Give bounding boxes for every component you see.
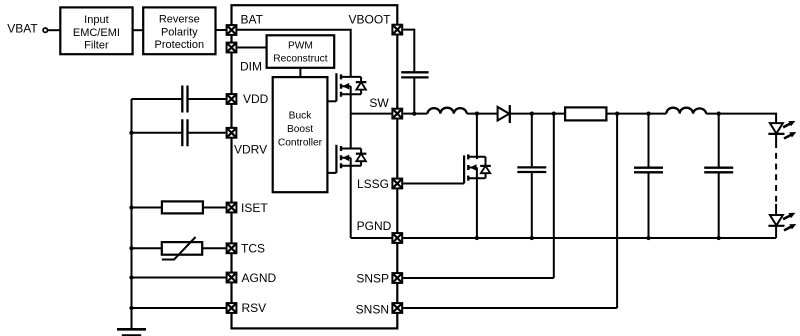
pin VDD <box>227 94 237 104</box>
wire gate Q2 <box>327 172 336 174</box>
wire output cap B bottom <box>718 173 720 238</box>
svg-text:Reconstruct: Reconstruct <box>273 54 328 65</box>
wire diode to sense resistor <box>510 113 565 115</box>
svg-text:Reverse: Reverse <box>159 14 200 26</box>
ground <box>117 329 146 335</box>
wire inductor to diode <box>467 113 498 115</box>
svg-text:AGND: AGND <box>242 271 277 285</box>
wire PGND return line <box>403 237 776 239</box>
wire Q2 source to PGND pin <box>351 158 392 238</box>
svg-text:LSSG: LSSG <box>357 177 389 191</box>
wire ISET <box>132 207 226 209</box>
svg-text:Boost: Boost <box>287 124 313 135</box>
block reverse polarity protection <box>143 7 215 54</box>
capacitor C1 (VDD) <box>182 86 187 113</box>
junction Q3 drain <box>475 111 479 115</box>
wire output cap B top <box>718 114 720 167</box>
svg-text:VBOOT: VBOOT <box>348 12 391 26</box>
junction C5 top <box>646 111 650 115</box>
svg-text:Input: Input <box>84 14 108 26</box>
wire SNSN <box>403 114 617 308</box>
junction bus-RSV <box>129 306 133 310</box>
node VBAT <box>7 21 47 35</box>
block buck boost controller <box>273 77 328 192</box>
junction boot cap / SW <box>412 111 416 115</box>
thermistor RT1 (TCS NTC) <box>162 237 202 260</box>
wire LSSG to Q3 gate <box>403 183 464 185</box>
wire TCS <box>132 247 226 249</box>
wire PWM to controller <box>299 68 301 77</box>
svg-text:BAT: BAT <box>241 12 264 26</box>
wire LED link dashed <box>775 153 777 202</box>
wire DIM to PWM block <box>237 47 266 49</box>
junction C6 bottom <box>717 236 721 240</box>
svg-text:RSV: RSV <box>242 301 267 315</box>
diode D1 <box>498 105 510 123</box>
svg-text:Polarity: Polarity <box>161 26 198 38</box>
inductor L2 <box>666 108 706 114</box>
wire gate Q1 <box>327 100 336 102</box>
junction C6 top <box>717 111 721 115</box>
pin TCS <box>227 243 237 253</box>
wire LED D3 cathode to return <box>775 226 777 238</box>
wire output cap A top <box>648 114 650 167</box>
svg-text:Controller: Controller <box>278 137 323 148</box>
IC U1 boundary <box>232 5 398 328</box>
pin RSV <box>227 303 237 313</box>
wire sense resistor to inductor L2 <box>606 113 666 115</box>
capacitor C5 <box>634 168 663 173</box>
wire Q3 source vertical <box>476 168 478 179</box>
svg-text:PGND: PGND <box>357 219 392 233</box>
wire bootstrap cap to SW <box>413 79 415 114</box>
transistor Q2 (internal low-side NMOS) <box>336 145 366 173</box>
block input EMC/EMI filter <box>60 7 132 54</box>
wire L2 to LED string <box>706 114 776 124</box>
wire BAT internal to Q1 drain <box>237 30 350 77</box>
pin SNSN <box>392 303 402 313</box>
LED D3 <box>768 213 796 231</box>
wire VBAT to filter <box>48 29 61 31</box>
wire VDRV line <box>132 132 226 134</box>
wire VDD line <box>132 98 226 100</box>
junction C4 bottom <box>530 236 534 240</box>
svg-text:VDD: VDD <box>243 92 269 106</box>
block PWM reconstruct <box>267 35 335 68</box>
junction C5 bottom <box>646 236 650 240</box>
svg-text:DIM: DIM <box>240 60 262 74</box>
svg-text:VBAT: VBAT <box>7 21 38 35</box>
wire Q3 drain <box>476 114 478 160</box>
capacitor C4 <box>517 167 546 172</box>
junction bus-AGND <box>129 275 133 279</box>
transistor Q3 (external low-side NMOS) <box>464 154 491 183</box>
capacitor C6 <box>704 168 733 173</box>
pin SNSP <box>392 273 402 283</box>
wire LED link solid top <box>775 134 777 148</box>
transistor Q1 (internal high-side NMOS) <box>336 73 366 101</box>
svg-text:Buck: Buck <box>289 111 313 122</box>
pin DIM <box>227 43 237 53</box>
wire AGND <box>132 277 226 279</box>
junction bus-TCS <box>129 246 133 250</box>
wire output cap A bottom <box>648 173 650 238</box>
wire SW to inductor <box>403 113 427 115</box>
svg-text:SW: SW <box>369 96 389 110</box>
wire LED link solid bottom <box>775 204 777 215</box>
svg-text:PWM: PWM <box>288 40 313 51</box>
svg-text:VDRV: VDRV <box>234 142 267 156</box>
svg-text:TCS: TCS <box>241 241 265 255</box>
wire SW internal <box>351 113 392 115</box>
wire Q1 source to Q2 drain <box>350 86 352 148</box>
junction C4 top <box>530 111 534 115</box>
junction bus-ISET <box>129 205 133 209</box>
wire mid capacitor bottom <box>531 173 533 238</box>
wire mid capacitor top <box>531 114 533 167</box>
pin ISET <box>227 203 237 213</box>
capacitor C2 (VDRV) <box>182 119 187 146</box>
junction bus-VDRV <box>129 131 133 135</box>
pin BAT <box>227 25 237 35</box>
wire reverse polarity to BAT pin <box>216 29 226 31</box>
wire VBOOT to bootstrap cap <box>403 30 414 72</box>
resistor R1 (ISET) <box>162 201 203 213</box>
pin SW <box>392 109 402 119</box>
svg-text:SNSN: SNSN <box>356 303 389 317</box>
wire left ground bus <box>131 99 133 329</box>
pin AGND <box>227 273 237 283</box>
inductor L1 <box>427 108 466 114</box>
svg-text:SNSP: SNSP <box>356 272 389 286</box>
wire RSV <box>132 307 226 309</box>
wire Q3 source to PGND line <box>476 176 478 238</box>
pin LSSG <box>392 179 402 189</box>
svg-text:ISET: ISET <box>241 201 268 215</box>
pin VDRV <box>227 128 237 138</box>
junction SNSP tap <box>552 111 556 115</box>
wire SNSP <box>403 114 554 278</box>
wire filter to reverse polarity <box>133 29 144 31</box>
resistor R2 (current sense) <box>565 107 606 120</box>
svg-text:EMC/EMI: EMC/EMI <box>73 27 120 39</box>
svg-text:Protection: Protection <box>155 39 205 51</box>
junction SNSN tap <box>615 111 619 115</box>
LED D2 <box>768 121 796 139</box>
pin PGND <box>392 233 402 243</box>
junction Q3 source / PGND <box>475 236 479 240</box>
pin VBOOT <box>392 25 402 35</box>
svg-text:Filter: Filter <box>84 40 109 52</box>
capacitor C3 (bootstrap) <box>401 72 428 77</box>
